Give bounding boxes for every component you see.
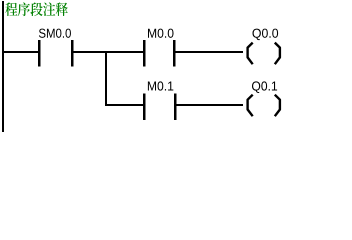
wire rung1: rail to contact SM0.0 [4, 51, 38, 53]
label SM0.0 [39, 29, 71, 38]
left power rail [2, 1, 4, 132]
contact M0.0 right bar [173, 40, 175, 67]
label Q0.1 [252, 81, 277, 93]
wire rung1: SM0.0 to contact M0.0 [73, 51, 143, 53]
contact SM0.0 left bar [38, 40, 40, 67]
label M0.1 [148, 81, 173, 90]
network comment text 程序段注释 [5, 2, 68, 16]
wire rung2: M0.1 to coil Q0.1 [176, 104, 243, 106]
label M0.0 [148, 29, 174, 38]
contact M0.0 left bar [143, 40, 145, 67]
label Q0.0 [252, 29, 278, 41]
coil Q0.1 [248, 95, 280, 117]
coil Q0.0 [248, 43, 280, 65]
contact M0.1 right bar [174, 93, 176, 120]
contact SM0.0 right bar [71, 40, 73, 67]
wire rung1: M0.0 to coil Q0.0 [175, 51, 243, 53]
branch junction vertical wire [105, 51, 107, 106]
contact M0.1 left bar [143, 93, 145, 120]
wire rung2: branch to contact M0.1 [105, 104, 143, 106]
